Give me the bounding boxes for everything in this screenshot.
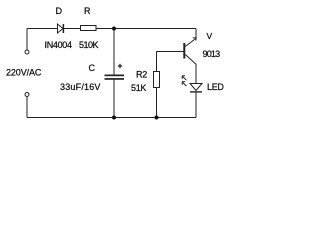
svg-text:LED: LED [207, 82, 224, 92]
svg-text:D: D [56, 6, 63, 16]
capacitor C plates [105, 75, 125, 80]
node junction bottom rail / R2 [155, 116, 159, 120]
svg-text:R: R [84, 6, 91, 16]
wire collector vertical to LED [195, 64, 197, 83]
wire left vertical to top terminal [26, 29, 28, 50]
LED emission arrows [182, 76, 186, 86]
svg-text:V: V [207, 31, 213, 41]
wire transistor base [157, 51, 184, 53]
wire R2 lower lead [156, 88, 158, 118]
svg-text:51K: 51K [131, 83, 146, 93]
wire top rail [27, 28, 196, 30]
wire capacitor branch lower [113, 80, 115, 118]
node bottom AC terminal [25, 93, 29, 97]
svg-text:9013: 9013 [203, 49, 221, 59]
node junction bottom rail / capacitor [112, 116, 116, 120]
svg-text:33uF/16V: 33uF/16V [60, 82, 101, 92]
wire R2 upper lead [156, 52, 158, 72]
resistor R2 51K [154, 72, 160, 88]
wire bottom terminal to bottom rail [26, 97, 28, 118]
node top AC terminal [25, 50, 29, 54]
wire capacitor branch upper [113, 29, 115, 75]
node junction top rail / capacitor [112, 27, 116, 31]
wire emitter vertical to top rail [195, 29, 197, 41]
svg-text:C: C [89, 63, 96, 73]
wire bottom rail [27, 117, 196, 119]
transistor V 9013 [183, 38, 196, 64]
svg-text:R2: R2 [136, 70, 147, 80]
svg-text:IN4004: IN4004 [45, 40, 73, 50]
svg-text:510K: 510K [79, 40, 99, 50]
diode D IN4004 [58, 24, 64, 33]
wire LED cathode lead [195, 92, 197, 117]
capacitor polarity plus [118, 64, 122, 68]
resistor R 510K [81, 26, 97, 31]
LED [190, 84, 202, 93]
svg-text:220V/AC: 220V/AC [6, 68, 42, 78]
